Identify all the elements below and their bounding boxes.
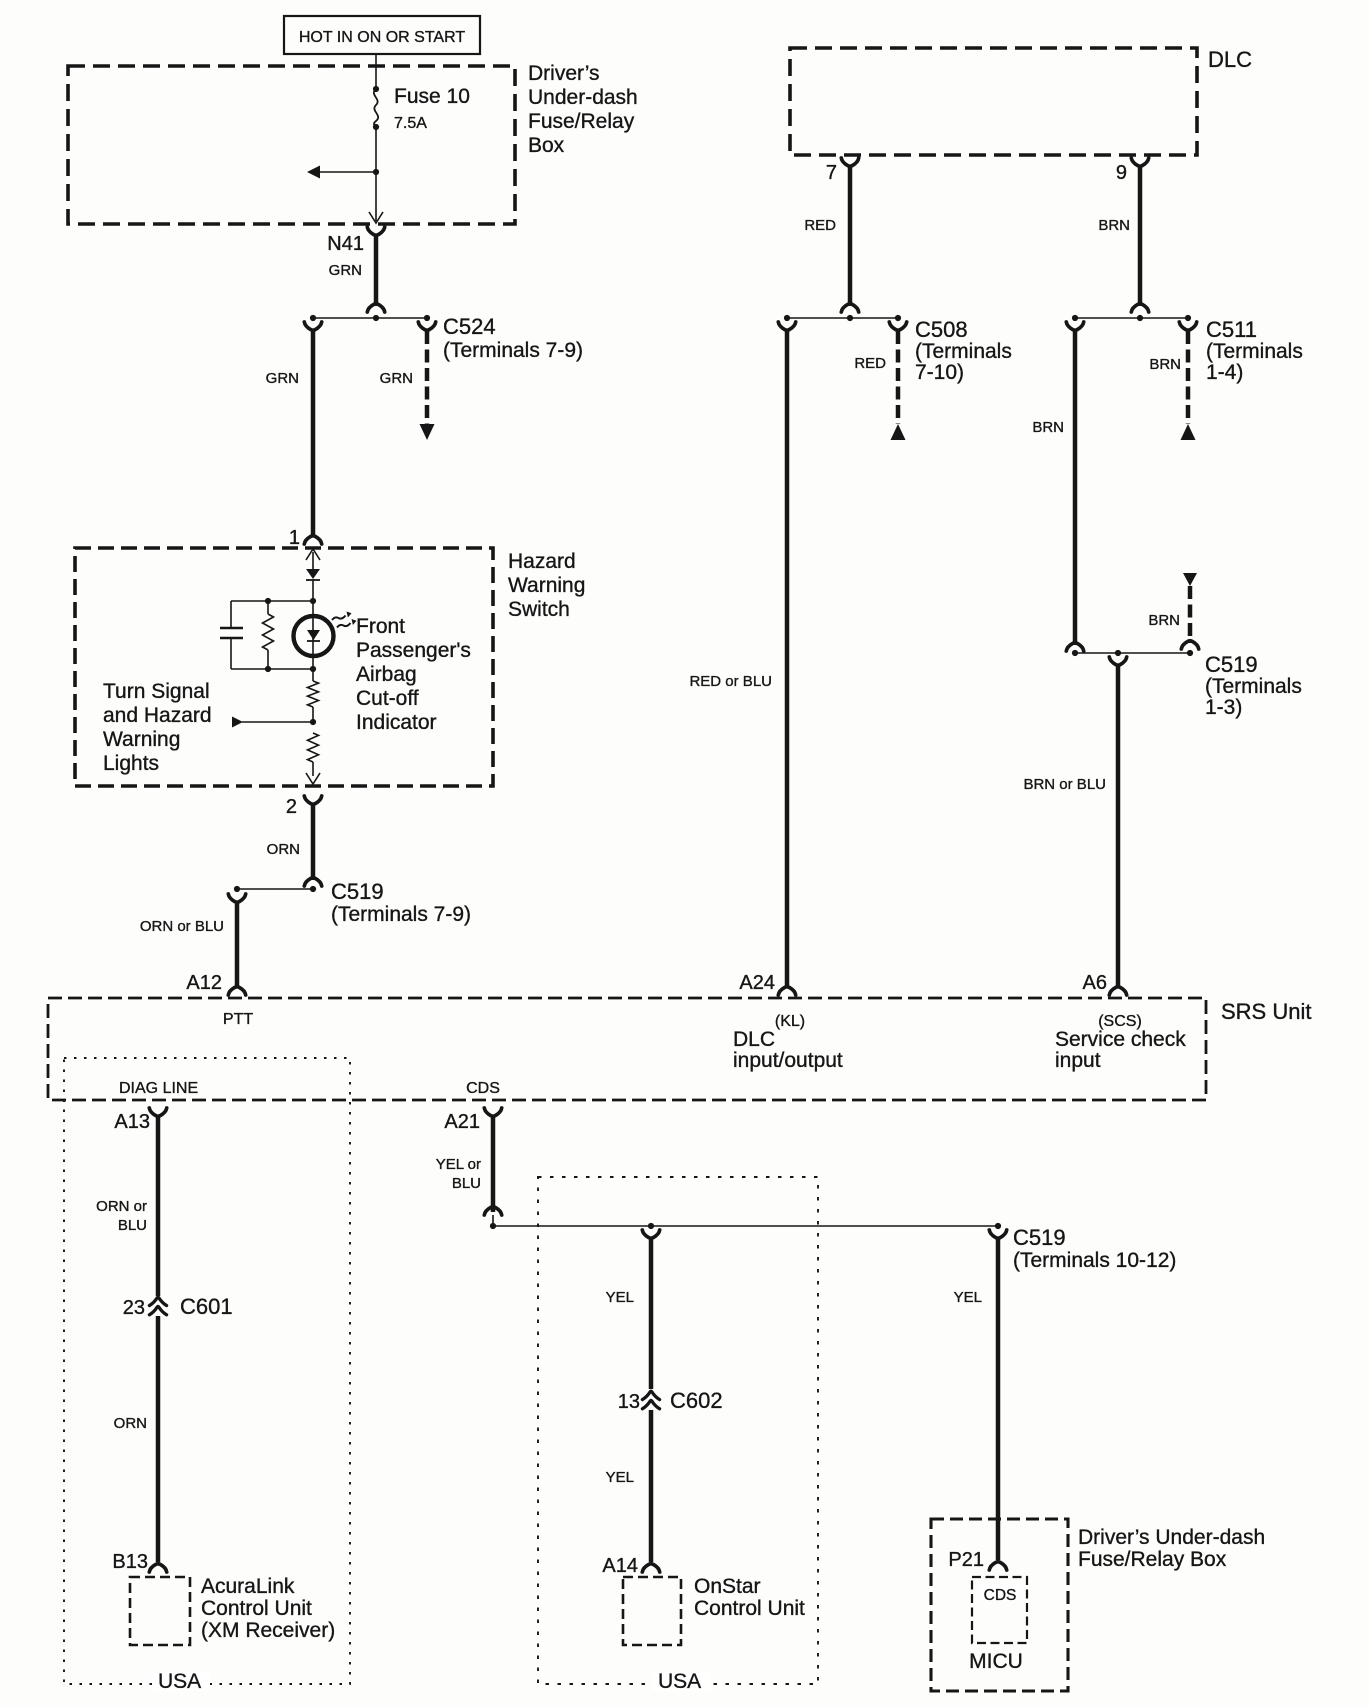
wire pin1 to diode (312, 552, 314, 570)
svg-text:CDS: CDS (984, 1587, 1017, 1604)
pin label 13 (618, 1391, 640, 1413)
connector fork below C508 right branch (889, 322, 906, 330)
label: C519 (Terminals 1-3) (1205, 652, 1302, 719)
inline connector C601 (149, 1297, 166, 1315)
svg-text:2: 2 (286, 796, 297, 818)
svg-text:1-3): 1-3) (1205, 696, 1242, 719)
connector fork below C511 left (1066, 322, 1083, 330)
wire YEL upper (OnStar branch) (649, 1238, 654, 1389)
node C524 left (310, 315, 316, 321)
wire ORN from C601 to B13 (156, 1316, 161, 1562)
svg-text:RED: RED (854, 355, 886, 372)
svg-text:23: 23 (123, 1297, 145, 1319)
USA region box (OnStar) (538, 1177, 818, 1684)
junction line at C508 (787, 317, 898, 319)
label: ORN or BLU (two lines) (96, 1198, 147, 1234)
svg-text:GRN: GRN (380, 370, 413, 387)
connector fork at DLC pin 7 (841, 158, 858, 166)
arrow from turn signal circuit (232, 717, 243, 728)
node C511 right (1185, 315, 1191, 321)
power source label HOT IN ON OR START (284, 16, 480, 54)
label: BRN (branch) (1149, 356, 1181, 373)
pin label A13 (114, 1111, 150, 1133)
node C511 left (1072, 315, 1078, 321)
pin label P21 (948, 1549, 984, 1571)
label: MICU (969, 1650, 1023, 1673)
connector fork at C519 (7-9) (304, 878, 321, 886)
CDS box inside MICU (972, 1577, 1027, 1643)
label: OnStar Control Unit (694, 1575, 805, 1620)
svg-text:Cut-off: Cut-off (356, 687, 419, 710)
svg-text:AcuraLink: AcuraLink (201, 1575, 295, 1598)
wire ORN or BLU from A13 (156, 1116, 161, 1296)
svg-text:P21: P21 (948, 1549, 984, 1571)
label: Hazard Warning Switch (508, 550, 585, 621)
inline connector C602 (642, 1391, 659, 1409)
svg-text:YEL: YEL (954, 1289, 982, 1306)
resistor R1 (parallel with LED) (263, 601, 274, 669)
node CDS mid (648, 1223, 654, 1229)
svg-text:Driver’s Under-dash: Driver’s Under-dash (1078, 1526, 1265, 1549)
svg-text:7.5A: 7.5A (394, 115, 427, 132)
svg-text:9: 9 (1116, 162, 1127, 184)
svg-text:GRN: GRN (266, 370, 299, 387)
node top rail at resistor (265, 598, 271, 604)
svg-text:Fuse/Relay Box: Fuse/Relay Box (1078, 1548, 1227, 1571)
svg-text:C519: C519 (331, 879, 384, 904)
svg-text:ORN: ORN (114, 1415, 147, 1432)
pin label 7 (826, 162, 837, 184)
arrow to other circuit (left) (307, 166, 320, 179)
wire YEL lower (OnStar branch) (649, 1410, 654, 1562)
svg-text:A13: A13 (114, 1111, 150, 1133)
node turn-signal tap (310, 719, 316, 725)
pin label 23 (123, 1297, 145, 1319)
svg-text:(Terminals 10-12): (Terminals 10-12) (1013, 1249, 1176, 1272)
label: CDS (bottom box) (981, 1585, 1019, 1604)
label: GRN (left branch) (266, 370, 299, 387)
junction line at C519 (1-3) (1075, 652, 1190, 654)
connector fork above hazard switch pin 1 (304, 536, 321, 544)
connector fork below C511 right branch (1179, 322, 1196, 330)
wire BRN from C511 to C519 (1-3) (1073, 330, 1078, 645)
branch wire to other circuits (318, 171, 376, 173)
svg-text:BLU: BLU (452, 1175, 481, 1192)
arrow to other circuit (up) right (1181, 424, 1196, 440)
label: ORN or BLU (140, 918, 224, 935)
node above fuse 10 (373, 86, 379, 92)
svg-text:BLU: BLU (118, 1217, 147, 1234)
connector fork above C519 (1-3) right (1181, 641, 1198, 649)
connector fork at B13 (149, 1564, 166, 1572)
node bottom rail at LED (310, 666, 316, 672)
hazard warning switch box (75, 548, 493, 786)
svg-text:Under-dash: Under-dash (528, 86, 638, 109)
label: (SCS) (1098, 1013, 1142, 1030)
connector fork below C524 left (304, 322, 321, 330)
node bottom rail at resistor (265, 666, 271, 672)
connector fork below C519 (7-9) (228, 894, 245, 902)
svg-text:A6: A6 (1083, 972, 1107, 994)
svg-text:Lights: Lights (103, 752, 159, 775)
wire junction to N41 pin (375, 172, 377, 221)
driver's under-dash fuse/relay box (bottom) (931, 1519, 1068, 1691)
svg-text:YEL: YEL (606, 1469, 634, 1486)
dashed wire BRN branch via C511 (1186, 331, 1191, 424)
svg-text:USA: USA (158, 1670, 201, 1693)
svg-text:C524: C524 (443, 314, 496, 339)
wire ORN pin2 to C519 (311, 804, 316, 880)
wire BRN or BLU to SRS A6 (1116, 665, 1121, 988)
svg-text:7: 7 (826, 162, 837, 184)
capacitor C1 bottom lead (230, 638, 232, 669)
label: Driver's Under-dash Fuse/Relay Box (bottom) (1078, 1526, 1265, 1571)
connector fork above C511 (1131, 304, 1148, 312)
pin label B13 (112, 1551, 148, 1573)
label: PTT (223, 1011, 253, 1028)
connector fork at A14 (642, 1564, 659, 1572)
label: N41 (327, 233, 364, 255)
svg-text:Box: Box (528, 134, 565, 157)
svg-text:C602: C602 (670, 1388, 723, 1413)
svg-text:(KL): (KL) (775, 1013, 805, 1030)
node C508 right (895, 315, 901, 321)
svg-text:C519: C519 (1013, 1225, 1066, 1250)
pin label A24 (739, 972, 775, 994)
fuse 10 symbol (374, 89, 378, 127)
svg-text:BRN: BRN (1148, 612, 1180, 629)
svg-text:RED or BLU: RED or BLU (689, 673, 772, 690)
svg-text:Indicator: Indicator (356, 711, 437, 734)
junction line at C519 (7-9) (237, 888, 313, 890)
svg-text:Control Unit: Control Unit (694, 1597, 805, 1620)
svg-text:Warning: Warning (508, 574, 585, 597)
svg-text:Passenger's: Passenger's (356, 639, 471, 662)
svg-text:13: 13 (618, 1391, 640, 1413)
wire YEL to P21 (996, 1238, 1001, 1560)
node C519 right (310, 886, 316, 892)
svg-text:RED: RED (804, 217, 836, 234)
wire fuse to junction (375, 127, 377, 172)
label: 7.5A (394, 115, 427, 132)
label: USA (left) (152, 1670, 210, 1693)
svg-text:Driver’s: Driver’s (528, 62, 600, 85)
label: RED (branch) (854, 355, 886, 372)
svg-text:Hazard: Hazard (508, 550, 576, 573)
connector fork below SRS A13 (149, 1108, 166, 1116)
label: Turn Signal and Hazard Warning Lights (103, 680, 212, 775)
svg-text:A21: A21 (444, 1111, 480, 1133)
LED indicator lamp circle (Front Passenger's Airbag Cut-off Indicator) (294, 601, 334, 669)
label: YEL or BLU (436, 1156, 481, 1192)
OnStar control unit box (623, 1577, 681, 1645)
svg-text:YEL or: YEL or (436, 1156, 481, 1173)
svg-text:C601: C601 (180, 1294, 233, 1319)
connector fork above C519 (1-3) (1066, 643, 1083, 651)
connector fork at SRS A24 (778, 987, 795, 995)
node C524 right (424, 315, 430, 321)
stub to CDS junction (492, 1215, 494, 1226)
pin 2 label (286, 796, 297, 818)
svg-text:Airbag: Airbag (356, 663, 417, 686)
svg-text:DIAG LINE: DIAG LINE (119, 1080, 198, 1097)
svg-text:B13: B13 (112, 1551, 148, 1573)
node top rail at LED (310, 598, 316, 604)
DLC box (790, 48, 1197, 155)
capacitor C1 top lead (230, 601, 232, 628)
label: RED (804, 217, 836, 234)
svg-text:C519: C519 (1205, 652, 1258, 677)
svg-text:Service check: Service check (1055, 1028, 1186, 1051)
svg-text:SRS Unit: SRS Unit (1221, 999, 1311, 1024)
svg-text:A24: A24 (739, 972, 775, 994)
node CDS right (995, 1223, 1001, 1229)
svg-text:Front: Front (356, 615, 405, 638)
resistor R2 below LED (308, 669, 319, 722)
svg-text:ORN or: ORN or (96, 1198, 147, 1215)
label: C524 (Terminals 7-9) (443, 314, 583, 362)
node C519(1-3) right (1187, 650, 1193, 656)
node C524 mid (373, 315, 379, 321)
connector fork below CDS junction (MICU branch) (989, 1230, 1006, 1238)
svg-text:Fuse 10: Fuse 10 (394, 85, 470, 108)
svg-text:Fuse/Relay: Fuse/Relay (528, 110, 635, 133)
svg-text:1-4): 1-4) (1206, 361, 1243, 384)
label: DLC (1208, 47, 1252, 72)
svg-text:Control Unit: Control Unit (201, 1597, 312, 1620)
svg-text:DLC: DLC (733, 1028, 775, 1051)
label: C601 (180, 1294, 233, 1319)
svg-text:(Terminals: (Terminals (1206, 340, 1303, 363)
arrow from other circuit (down) into C519 (1-3) (1183, 573, 1197, 586)
pin 1 arrow into switch (306, 549, 320, 560)
svg-text:input: input (1055, 1049, 1101, 1072)
label: AcuraLink Control Unit (XM Receiver) (201, 1575, 335, 1642)
svg-text:BRN or BLU: BRN or BLU (1023, 776, 1106, 793)
pin label 9 (1116, 162, 1127, 184)
label: BRN or BLU (1023, 776, 1106, 793)
AcuraLink control unit box (130, 1577, 190, 1645)
pin label A6 (1083, 972, 1107, 994)
label: C602 (670, 1388, 723, 1413)
dashed wire RED branch via C508 (896, 331, 901, 424)
label: USA (right) (652, 1670, 710, 1693)
wire RED from DLC 7 (848, 166, 853, 306)
label: BRN (main) (1032, 419, 1064, 436)
label: C511 (Terminals 1-4) (1206, 317, 1303, 384)
svg-text:HOT IN ON OR START: HOT IN ON OR START (299, 29, 465, 46)
svg-text:A12: A12 (186, 972, 222, 994)
svg-text:C508: C508 (915, 317, 968, 342)
svg-text:GRN: GRN (329, 262, 362, 279)
wire to turn signal lights (242, 721, 313, 723)
pin label A21 (444, 1111, 480, 1133)
pin 2 arrow out of switch (306, 773, 320, 784)
SRS unit box (48, 998, 1206, 1100)
pin 1 label (289, 527, 300, 549)
label: GRN (329, 262, 362, 279)
svg-text:ORN: ORN (267, 841, 300, 858)
svg-text:Warning: Warning (103, 728, 180, 751)
junction line at C511 (1075, 317, 1188, 319)
svg-text:N41: N41 (327, 233, 364, 255)
wire from HOT IN ON OR START to fuse 10 (375, 54, 377, 89)
wire GRN from C524 to hazard switch pin 1 (311, 330, 316, 536)
USA region box (AcuraLink) (64, 1058, 350, 1684)
label: CDS (SRS pin) (466, 1080, 500, 1097)
node C519(1-3) left (1072, 650, 1078, 656)
svg-text:YEL: YEL (606, 1289, 634, 1306)
bottom rail of RC network (231, 668, 313, 670)
label: C519 (Terminals 10-12) (1013, 1225, 1176, 1272)
label: YEL (MICU branch) (954, 1289, 982, 1306)
connector fork at SRS A12 (228, 987, 245, 995)
connector fork at DLC pin 9 (1131, 158, 1148, 166)
arrow to other circuit (down) (420, 424, 435, 440)
svg-text:C511: C511 (1206, 317, 1257, 342)
wire RED or BLU to SRS A24 (785, 330, 790, 988)
svg-text:A14: A14 (602, 1555, 638, 1577)
pin arrow at fuse box exit (N41) (369, 212, 383, 223)
connector fork below SRS A21 (484, 1108, 501, 1116)
wire YEL or BLU from A21 (491, 1116, 496, 1212)
wire ORN or BLU to SRS A12 (235, 902, 240, 988)
node C519 left (234, 886, 240, 892)
arrow to other circuit (up) (891, 424, 906, 440)
node C508 left (784, 315, 790, 321)
label: C519 (Terminals 7-9) (331, 879, 471, 926)
svg-text:DLC: DLC (1208, 47, 1252, 72)
svg-text:BRN: BRN (1098, 217, 1130, 234)
node below fuse 10 (373, 124, 379, 130)
label: RED or BLU (689, 673, 772, 690)
junction line at C524 (313, 317, 427, 319)
wire diode to LED anode node (312, 580, 314, 601)
svg-text:(Terminals: (Terminals (915, 340, 1012, 363)
label: Front Passenger's Airbag Cut-off Indicator (356, 615, 471, 734)
svg-text:Switch: Switch (508, 598, 570, 621)
label: Fuse 10 (394, 85, 470, 108)
label: DIAG LINE (119, 1080, 198, 1097)
svg-text:USA: USA (658, 1670, 701, 1693)
svg-text:Turn Signal: Turn Signal (103, 680, 210, 703)
svg-text:PTT: PTT (223, 1011, 253, 1028)
connector fork below CDS junction (OnStar branch) (642, 1230, 659, 1238)
node C508 mid (847, 315, 853, 321)
node C511 mid (1137, 315, 1143, 321)
svg-text:(Terminals 7-9): (Terminals 7-9) (443, 339, 583, 362)
top rail to RC network (231, 600, 313, 602)
connector at C524 (fork) (367, 304, 384, 312)
svg-text:7-10): 7-10) (915, 361, 964, 384)
label: Driver's Under-dash Fuse/Relay Box (528, 62, 638, 157)
connector fork at P21 (989, 1562, 1006, 1570)
svg-text:(Terminals: (Terminals (1205, 675, 1302, 698)
label: YEL (lower) (606, 1469, 634, 1486)
connector fork below C519 (1-3) (1109, 657, 1126, 665)
label: YEL (upper) (606, 1289, 634, 1306)
connector fork below C508 left (778, 322, 795, 330)
label: ORN (lower) (114, 1415, 147, 1432)
capacitor C1 plates (220, 628, 243, 638)
label: DLC input/output (733, 1028, 843, 1072)
label: GRN (right branch) (380, 370, 413, 387)
driver's under-dash fuse/relay box (top) (68, 66, 515, 224)
label: ORN (267, 841, 300, 858)
svg-text:(XM Receiver): (XM Receiver) (201, 1619, 335, 1642)
label: Service check input (1055, 1028, 1186, 1072)
resistor R3 lower (308, 733, 319, 776)
svg-text:and Hazard: and Hazard (103, 704, 212, 727)
svg-text:OnStar: OnStar (694, 1575, 761, 1598)
connector fork at SRS A6 (1109, 987, 1126, 995)
pin label A14 (602, 1555, 638, 1577)
svg-text:CDS: CDS (466, 1080, 500, 1097)
wire BRN from DLC 9 (1138, 166, 1143, 306)
label: (KL) (775, 1013, 805, 1030)
label: SRS Unit (1221, 999, 1311, 1024)
label: BRN (incoming) (1148, 612, 1180, 629)
svg-text:1: 1 (289, 527, 300, 549)
wire GRN from N41 to C524 (374, 235, 379, 306)
connector N41 (fork) (367, 227, 384, 235)
junction node in fuse box (373, 169, 379, 175)
pin label A12 (186, 972, 222, 994)
svg-text:ORN or BLU: ORN or BLU (140, 918, 224, 935)
svg-text:MICU: MICU (969, 1650, 1023, 1673)
connector fork above C508 (841, 304, 858, 312)
node CDS left (490, 1223, 496, 1229)
diode D1 inside switch (306, 569, 320, 580)
svg-text:BRN: BRN (1032, 419, 1064, 436)
dashed wire BRN into C519 (1-3) (1188, 586, 1193, 643)
svg-text:(Terminals 7-9): (Terminals 7-9) (331, 903, 471, 926)
LED light emission arrows (332, 612, 357, 628)
svg-text:BRN: BRN (1149, 356, 1181, 373)
junction line CDS net (493, 1225, 998, 1227)
dashed wire GRN branch via C524 (425, 331, 430, 424)
connector fork below pin 2 (304, 796, 321, 804)
label: C508 (Terminals 7-10) (915, 317, 1012, 384)
label: BRN (1098, 217, 1130, 234)
connector fork above CDS junction (484, 1207, 501, 1215)
LED diode symbol (307, 630, 320, 641)
node C519(1-3) mid (1115, 650, 1121, 656)
svg-text:input/output: input/output (733, 1049, 843, 1072)
connector fork below C524 right branch (418, 322, 435, 330)
